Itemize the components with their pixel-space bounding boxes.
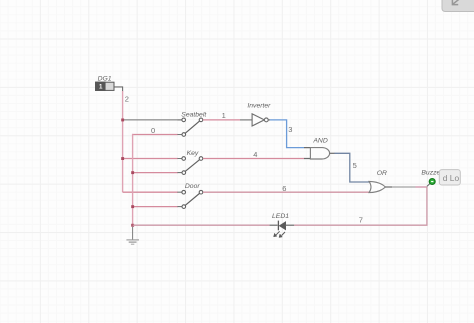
svg-text:Seatbelt: Seatbelt (181, 111, 207, 118)
wire 1 (203, 119, 240, 121)
wire 7 (right of LED, up to buzzer node) (294, 187, 427, 225)
svg-text:DG1: DG1 (98, 76, 112, 83)
svg-text:Inverter: Inverter (247, 102, 271, 109)
OR output wire to buzzer node (392, 186, 416, 188)
input DG1 (96, 82, 114, 91)
diode LED1 (274, 221, 286, 238)
AND input stubs (304, 148, 310, 159)
svg-text:0: 0 (151, 126, 155, 135)
wire to Door top contact (123, 191, 178, 193)
tooltip box "d Lo" (439, 170, 460, 185)
svg-text:d Lo: d Lo (443, 173, 460, 183)
wire 4 (203, 158, 304, 160)
svg-text:AND: AND (312, 137, 327, 144)
switch Door input stubs (177, 192, 181, 206)
toolbar button (top-right, partially cut) (442, 0, 474, 12)
switch Key input stubs (177, 159, 181, 173)
svg-text:7: 7 (359, 215, 363, 224)
svg-text:2: 2 (125, 95, 129, 104)
svg-text:Key: Key (187, 150, 199, 157)
wire 3 (high, blue) (270, 120, 304, 148)
junction on bus B at Key bottom (131, 171, 134, 174)
wire bus B (vertical) (132, 134, 134, 225)
svg-text:3: 3 (288, 125, 292, 134)
wire 7 (left of LED) (133, 224, 270, 226)
wire 5 (slate) (334, 153, 369, 182)
buzzer stub (427, 183, 430, 186)
wire to ground (132, 227, 134, 240)
wire to Door bottom contact (133, 206, 178, 208)
svg-text:OR: OR (377, 170, 387, 177)
junction on bus A at Seatbelt (121, 119, 124, 122)
junction on bus B at wire 7 (131, 224, 134, 227)
switch Seatbelt (182, 118, 203, 136)
AND output stub (330, 152, 335, 154)
LED anode stub (270, 224, 278, 226)
svg-text:LED1: LED1 (272, 213, 289, 220)
LED cathode stub (286, 224, 295, 226)
wire to Key bottom contact (133, 172, 178, 174)
svg-text:5: 5 (353, 161, 357, 170)
gate OR U2 (369, 181, 385, 192)
junction on bus A at Key (121, 157, 124, 160)
ground (126, 240, 139, 244)
junction on bus B at Door bottom (131, 205, 134, 208)
wire 2 (vertical bus A) (122, 91, 124, 192)
inverter output stub (268, 119, 270, 121)
wire 6 (203, 191, 370, 193)
buzzer BZ1 (429, 179, 435, 185)
svg-text:Door: Door (185, 183, 200, 190)
OR output stub (385, 186, 392, 188)
switch Key (182, 157, 203, 175)
input DG1 label (98, 76, 112, 83)
wire stub from DG1 (114, 87, 122, 92)
gate Inverter (252, 114, 268, 126)
svg-text:1: 1 (99, 84, 103, 91)
switch Door (182, 190, 203, 208)
svg-text:1: 1 (222, 111, 226, 120)
switch Seatbelt input stubs (177, 120, 181, 135)
inverter input stub (240, 119, 252, 121)
wire to Key top contact (123, 158, 178, 160)
wire to Seatbelt top contact (gray) (123, 119, 182, 121)
wire 0 (to Seatbelt bottom contact) (132, 134, 178, 136)
wire at buzzer node (pink) (416, 186, 427, 188)
gate AND U1 (310, 148, 329, 159)
svg-text:6: 6 (282, 184, 286, 193)
svg-text:4: 4 (253, 150, 257, 159)
